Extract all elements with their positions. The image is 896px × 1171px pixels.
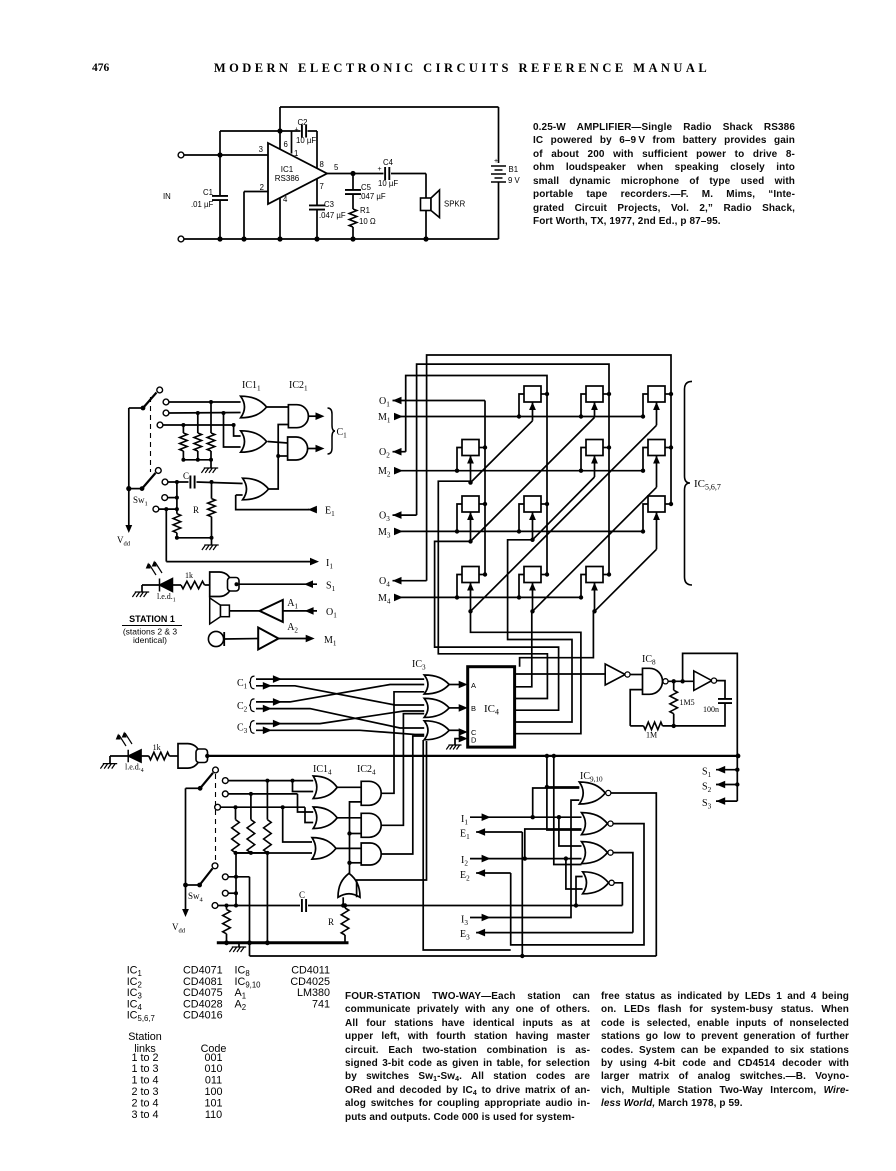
control D2: [656, 456, 658, 488]
wire pin2: [244, 191, 268, 193]
svg-text:SPKR: SPKR: [444, 200, 466, 209]
svg-text:7: 7: [320, 182, 324, 191]
battery B1 9V: [498, 107, 500, 163]
wire O1 line: [283, 610, 317, 612]
wire S2 stub: [716, 784, 737, 786]
control diagonal 1-4: [471, 425, 657, 611]
or-gate IC3b: [424, 698, 449, 717]
control C1: [594, 402, 596, 417]
wire code line3: [163, 424, 234, 426]
svg-text:C: C: [183, 471, 189, 481]
svg-text:RS386: RS386: [275, 174, 300, 183]
wire I1 line: [166, 561, 311, 563]
analog switch D1: [648, 386, 665, 402]
wire c5 station4: [228, 892, 236, 894]
svg-text:IN: IN: [163, 192, 171, 201]
analog switch D2: [648, 440, 665, 456]
ground led4: [100, 764, 117, 769]
wire code line1: [169, 401, 241, 403]
svg-text:2 to 4: 2 to 4: [131, 1097, 158, 1109]
wire code line c3 station4: [221, 806, 306, 808]
speaker SPKR: [421, 198, 432, 211]
svg-text:O2: O2: [379, 447, 390, 460]
svg-text:R: R: [328, 917, 334, 927]
wire pin6 riser: [279, 107, 281, 131]
amplifier A1: [229, 610, 259, 612]
svg-text:CD4081: CD4081: [183, 976, 223, 988]
svg-text:Station: Station: [128, 1031, 162, 1043]
control diagonal 1-3: [471, 417, 595, 541]
wire and1 output C1a: [308, 415, 317, 417]
svg-text:A: A: [471, 681, 476, 690]
svg-text:l.e.d.4: l.e.d.4: [125, 763, 144, 775]
wire I1 riser: [165, 509, 167, 561]
wire M4 line: [394, 596, 581, 598]
svg-text:S1: S1: [702, 767, 712, 780]
wire C1 lower crossing: [256, 686, 424, 705]
or-gate IC1-1b: [241, 431, 267, 452]
svg-text:I2: I2: [461, 855, 468, 868]
svg-text:.047 µF: .047 µF: [319, 211, 346, 220]
svg-text:C2: C2: [237, 701, 248, 714]
capacitor C1: [212, 196, 228, 200]
svg-text:A1: A1: [287, 598, 298, 611]
analog switch A2: [462, 440, 479, 456]
terminals lower group station4: [222, 874, 228, 880]
ground IC4 D input: [455, 739, 460, 745]
svg-text:C4: C4: [383, 158, 394, 167]
nor IC9a: [579, 782, 605, 804]
wire M3 line: [394, 530, 643, 532]
and-gate S1 driver: [205, 584, 210, 586]
wire 1M bottom row: [630, 725, 643, 727]
svg-text:identical): identical): [133, 635, 167, 645]
svg-text:l.e.d.1: l.e.d.1: [157, 592, 176, 604]
or-gate IC1-1c: [243, 478, 269, 500]
ground led1: [141, 585, 143, 592]
wire return line bottom: [250, 955, 657, 957]
wire E3 from loop: [476, 932, 633, 934]
wire nor3 output loop E3: [613, 853, 633, 933]
wire and2 output C1b: [308, 448, 317, 450]
svg-text:LM380: LM380: [297, 987, 330, 999]
svg-text:1: 1: [294, 149, 298, 158]
resistor below c6: [226, 906, 228, 910]
switch Sw4 gang dashed link: [215, 774, 217, 862]
wire I2 ic910: [470, 858, 582, 860]
wire M2 line: [394, 470, 643, 472]
svg-text:.047 µF: .047 µF: [359, 192, 386, 201]
wire Vdd rail station1: [128, 408, 130, 526]
page number: [92, 62, 109, 74]
svg-text:B1: B1: [509, 165, 519, 174]
wire I3 ic910: [470, 800, 579, 917]
wire pin7 / C3: [316, 179, 318, 206]
svg-text:E1: E1: [325, 506, 335, 519]
wire S heavy line: [207, 755, 737, 757]
wire I2 branch to nor4: [566, 859, 583, 889]
resistor R station4: [342, 897, 344, 905]
wire cap bottom: [663, 703, 726, 726]
wire nor3 in3 from S line: [554, 756, 582, 865]
wire E1 loop riser: [521, 832, 523, 956]
wire feedback row: [220, 130, 301, 132]
wire O2 line: [393, 451, 406, 453]
wire input bottom / ground rail: [178, 236, 184, 242]
svg-text:+: +: [378, 166, 382, 173]
and-gate IC2-4c: [361, 843, 381, 865]
control B1: [532, 402, 534, 421]
wire nor4 in1 from station4 line: [576, 877, 583, 906]
wire or1 to and1: [267, 406, 289, 408]
svg-text:Vdd: Vdd: [172, 922, 186, 935]
svg-text:C1: C1: [337, 427, 348, 440]
wire resistor common station4: [236, 852, 268, 854]
wire C row station4: [218, 905, 300, 907]
wire long riser from IC3 area: [423, 740, 511, 950]
svg-text:O1: O1: [326, 607, 337, 620]
control A4: [470, 583, 472, 612]
svg-text:+: +: [295, 127, 299, 134]
or-gate IC1-4b: [313, 807, 337, 829]
svg-text:C1: C1: [203, 188, 213, 197]
running head title: [162, 61, 762, 76]
svg-text:D: D: [471, 736, 477, 745]
led l.e.d.4: [128, 750, 141, 762]
wire or outputs to and inputs station4: [337, 786, 361, 788]
wire or-up output riser: [350, 802, 362, 873]
svg-text:110: 110: [205, 1109, 222, 1121]
wire nand in2 loop: [630, 690, 642, 726]
svg-text:3 to 4: 3 to 4: [131, 1109, 158, 1121]
svg-text:S3: S3: [702, 798, 712, 811]
wire bus S1: [736, 756, 738, 801]
wire I2 branch to nor2: [525, 829, 582, 859]
wire resistor common to ground bus: [266, 853, 268, 943]
switch Sw4 lower pole: [212, 863, 218, 869]
wire inv2 out to cap: [716, 681, 725, 699]
wire R bottom common: [177, 537, 212, 539]
capacitor C3: [309, 205, 325, 209]
svg-text:CD4071: CD4071: [183, 965, 223, 977]
wire IC4 out1 to inverter: [515, 673, 606, 675]
wire lower vertical branch: [176, 482, 178, 514]
svg-text:I1: I1: [461, 814, 468, 827]
wire I1 ic910: [470, 816, 582, 818]
svg-text:4: 4: [283, 195, 288, 204]
and-gate IC2-1b: [288, 437, 308, 460]
svg-text:10 µF: 10 µF: [378, 179, 398, 188]
wire I1 branch to nor1: [533, 788, 580, 817]
control diagonal 3-4: [595, 549, 657, 611]
control C4: [594, 583, 596, 612]
control diagonal 1-2: [471, 421, 533, 483]
wire code line c1 station4: [228, 780, 313, 782]
svg-text:741: 741: [312, 998, 330, 1010]
wire pin4: [279, 198, 281, 240]
wire E2 from loop: [476, 872, 511, 874]
and-gate IC2-1a: [288, 405, 308, 428]
wire output pin5: [327, 173, 384, 175]
svg-text:Sw4: Sw4: [188, 891, 204, 904]
wire nor1 output loop E1: [611, 793, 656, 956]
resistor R station1: [211, 482, 213, 499]
svg-text:5: 5: [334, 163, 339, 172]
wire C2 lower crossing: [256, 709, 424, 728]
svg-text:CD4011: CD4011: [291, 965, 330, 977]
svg-text:8: 8: [320, 160, 324, 169]
wire c4 station4: [228, 876, 249, 878]
analog switch B4: [524, 567, 541, 583]
svg-text:O4: O4: [379, 576, 390, 589]
speaker station1: [220, 605, 229, 617]
wire O1 column vertical: [484, 401, 486, 575]
wire E1 line: [236, 495, 309, 510]
analog switch A4: [462, 567, 479, 583]
wire nor2 output loop E2: [511, 824, 644, 945]
wire c4 riser down to return: [249, 877, 251, 956]
wire feedback top to bus: [683, 653, 738, 756]
capacitor 100n: [718, 699, 732, 703]
svg-text:010: 010: [204, 1063, 222, 1075]
svg-text:O1: O1: [379, 396, 390, 409]
analog switch C1: [586, 386, 603, 402]
svg-text:IC1: IC1: [281, 165, 294, 174]
svg-text:A2: A2: [287, 622, 298, 635]
svg-text:C2: C2: [298, 118, 308, 127]
wire O1 line: [393, 400, 486, 402]
control C2: [594, 456, 596, 478]
wire C3 upper crossing: [256, 711, 424, 724]
resistor 1M: [644, 722, 663, 730]
wire C1 upper to IC3a: [256, 678, 424, 680]
svg-text:IC24: IC24: [357, 764, 376, 777]
wire M1 line: [279, 638, 308, 640]
wire IC3b out to IC4 B: [449, 707, 460, 709]
svg-text:M2: M2: [378, 466, 391, 479]
wire E1 from loop: [476, 831, 522, 833]
ground resistor common: [210, 460, 212, 468]
and-gate S4 driver: [178, 744, 200, 769]
or-up input from right riser: [357, 741, 427, 897]
analog switch B3: [524, 496, 541, 512]
wire C5 branch: [352, 174, 354, 191]
wire IC2-4c output riser: [381, 736, 424, 854]
or-gate IC3a: [424, 675, 449, 694]
svg-text:100n: 100n: [703, 705, 719, 714]
control A2: [470, 456, 472, 483]
wire O3 line: [393, 514, 417, 516]
svg-text:M4: M4: [378, 593, 391, 606]
svg-text:Vdd: Vdd: [117, 535, 131, 548]
ground R bottom: [211, 538, 213, 545]
nor IC10a: [583, 872, 609, 894]
svg-text:R: R: [193, 505, 199, 515]
inverter IC8 output: [694, 671, 712, 691]
wire or2 to and2: [268, 442, 288, 444]
decoder IC4 CD4028: [468, 667, 515, 747]
control route pair2-3: [508, 540, 572, 722]
svg-text:I1: I1: [326, 558, 333, 571]
svg-text:9 V: 9 V: [508, 176, 521, 185]
svg-text:CD4075: CD4075: [183, 987, 223, 999]
svg-text:E2: E2: [460, 870, 470, 883]
terminals lower group station1: [162, 479, 168, 485]
wire M1 line: [394, 416, 643, 418]
caption four-station two-way, left column: [345, 990, 590, 1124]
svg-text:C3: C3: [237, 723, 248, 736]
svg-text:100: 100: [204, 1086, 222, 1098]
nor IC9c: [582, 842, 608, 864]
wire C to R junction: [308, 905, 622, 907]
resistor 1k station4: [141, 755, 149, 757]
ground bus heavy station4: [217, 941, 349, 944]
wire O4 riser to top bus: [427, 355, 671, 581]
wire Vdd rail station4: [185, 788, 187, 910]
code input terminals station4: [222, 778, 228, 784]
svg-text:IC14: IC14: [313, 764, 332, 777]
caption four-station two-way, right column: [601, 990, 849, 1111]
capacitor C4: [385, 167, 389, 180]
wire input top: [178, 152, 184, 158]
ground symbol on bus: [238, 943, 240, 947]
wire IC3c out to IC4 C: [449, 729, 460, 731]
wire I1 branch to nor3: [559, 817, 582, 846]
svg-text:C5: C5: [361, 183, 372, 192]
wire inv1 to nand: [630, 674, 643, 676]
resistor lower-left station1: [173, 514, 181, 533]
wire IC3a out to IC4 A: [449, 684, 460, 686]
capacitor C5: [345, 190, 361, 194]
capacitor C station1: [190, 476, 194, 489]
svg-text:STATION 1: STATION 1: [129, 614, 175, 624]
analog switch C4: [586, 567, 603, 583]
wire c6 branch vertical: [235, 853, 237, 906]
wire O3 riser to top bus: [417, 364, 609, 574]
svg-text:3: 3: [259, 145, 263, 154]
capacitor C station4: [302, 899, 306, 912]
wire nor4 output loop to station4: [614, 883, 622, 906]
led l.e.d.1: [160, 579, 173, 592]
amplifier A2: [224, 638, 258, 641]
wire code line c2 station4: [228, 793, 297, 795]
svg-text:CD4025: CD4025: [290, 976, 330, 988]
svg-text:1 to 2: 1 to 2: [131, 1052, 158, 1064]
control B3: [532, 512, 534, 540]
and-gate IC2-4a: [361, 781, 381, 805]
svg-text:IC8: IC8: [642, 654, 656, 667]
wire pin1 riser: [291, 131, 293, 154]
svg-text:M1: M1: [378, 412, 391, 425]
wire C cap row: [168, 481, 189, 483]
pull-down resistors station4: [235, 807, 237, 819]
wire S1 line: [239, 583, 317, 585]
control route pair1-4: [471, 611, 581, 733]
svg-text:IC21: IC21: [289, 380, 308, 393]
svg-text:1M: 1M: [646, 731, 657, 740]
wire IC2-4b output riser: [381, 714, 424, 826]
svg-text:M1: M1: [324, 635, 337, 648]
bracket IC5-6-7: [685, 381, 693, 585]
svg-text:Sw1: Sw1: [133, 495, 148, 508]
resistor 1k station1: [173, 584, 182, 586]
control D3: [656, 512, 658, 549]
analog switch A3: [462, 496, 479, 512]
wire C3 lower: [256, 730, 424, 734]
control route pair1-3: [435, 541, 559, 710]
analog switch D3: [648, 496, 665, 512]
or-gate station4 enable (up): [338, 873, 360, 897]
svg-text:.01 µF: .01 µF: [191, 200, 213, 209]
svg-text:10 Ω: 10 Ω: [359, 217, 376, 226]
svg-text:I3: I3: [461, 915, 468, 928]
wire or3 feedback riser: [269, 425, 289, 490]
svg-text:2: 2: [260, 183, 264, 192]
svg-text:C: C: [299, 890, 305, 900]
resistor R1: [349, 209, 357, 227]
switch Sw1 gang dashed link: [150, 397, 152, 472]
wire pin8 riser: [316, 131, 318, 169]
wire resistor common: [183, 459, 211, 461]
analog switch C2: [586, 440, 603, 456]
analog switch B1: [524, 386, 541, 402]
svg-text:1M5: 1M5: [680, 698, 695, 707]
control route pair3-4: [520, 611, 594, 666]
op-amp IC1 RS386: [268, 143, 327, 204]
svg-text:S1: S1: [326, 581, 336, 594]
wire C4 to speaker: [391, 173, 426, 175]
svg-text:R1: R1: [360, 206, 370, 215]
svg-text:+: +: [494, 158, 498, 165]
svg-text:2 to 3: 2 to 3: [131, 1086, 158, 1098]
svg-text:E3: E3: [460, 929, 470, 942]
svg-text:M3: M3: [378, 527, 391, 540]
svg-text:001: 001: [204, 1052, 222, 1064]
wire O2 riser to top bus: [406, 376, 547, 575]
control route pair1-2: [438, 481, 547, 698]
switch Sw1 upper pole: [129, 407, 143, 409]
wire speaker to ground rail: [425, 211, 427, 240]
svg-text:1k: 1k: [153, 743, 161, 752]
switch Sw4 upper pole: [213, 767, 219, 773]
and-gate IC2-4b: [361, 813, 381, 837]
svg-text:1 to 4: 1 to 4: [131, 1075, 158, 1087]
svg-text:011: 011: [205, 1075, 222, 1087]
or-gate IC3c: [424, 721, 449, 740]
wire third terminal to I1 riser: [159, 508, 177, 510]
control A3: [470, 512, 472, 541]
control D1: [656, 402, 658, 425]
svg-text:B: B: [471, 704, 476, 713]
nand IC8: [643, 668, 663, 694]
svg-text:10 µF: 10 µF: [296, 136, 316, 145]
svg-text:IC11: IC11: [242, 380, 261, 393]
svg-text:C1: C1: [237, 678, 248, 691]
control B4: [532, 583, 534, 612]
wire IC2-4a output riser: [381, 692, 424, 794]
or-gate IC1-1a: [241, 396, 267, 418]
wire S1 stub: [716, 769, 737, 771]
svg-text:1 to 3: 1 to 3: [131, 1063, 158, 1075]
wire nand out: [668, 680, 694, 682]
wire S3 stub: [716, 800, 737, 802]
wire C2 upper crossing: [256, 685, 424, 702]
svg-text:CD4016: CD4016: [183, 1010, 223, 1022]
wire nor1 in1 from S line: [547, 756, 553, 787]
svg-text:IC5,6,7: IC5,6,7: [694, 478, 721, 492]
svg-text:E1: E1: [460, 829, 470, 842]
resistor 1M5: [673, 681, 675, 690]
